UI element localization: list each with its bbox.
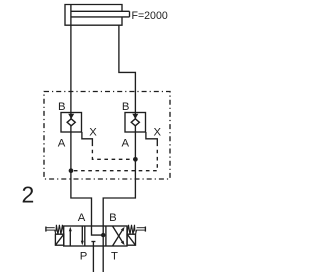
svg-text:P: P (80, 251, 88, 263)
svg-text:T: T (111, 251, 118, 263)
svg-text:B: B (122, 101, 130, 113)
svg-text:X: X (89, 126, 97, 138)
svg-text:B: B (58, 101, 66, 113)
svg-text:2: 2 (22, 182, 35, 208)
svg-text:F=2000: F=2000 (132, 10, 168, 22)
svg-text:A: A (58, 137, 66, 149)
svg-text:X: X (154, 126, 162, 138)
svg-text:A: A (78, 212, 86, 224)
svg-text:B: B (109, 212, 117, 224)
svg-text:A: A (122, 137, 130, 149)
